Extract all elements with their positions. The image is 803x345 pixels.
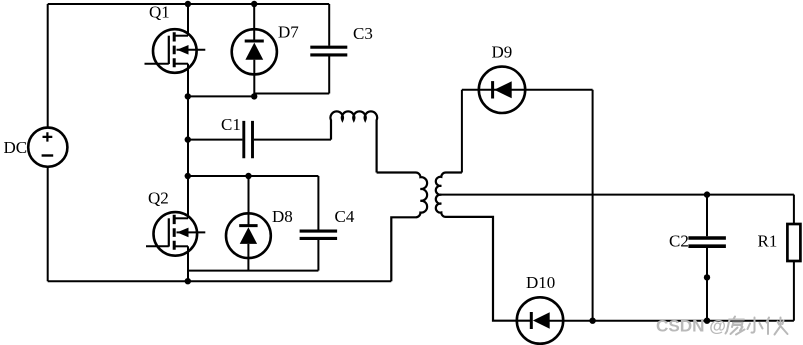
- junction Q1 source / mid rail: [185, 93, 191, 99]
- junction D7 anode / mid rail: [251, 93, 257, 99]
- svg-text:C2: C2: [669, 231, 689, 250]
- svg-text:Q1: Q1: [149, 3, 170, 22]
- svg-text:D9: D9: [492, 43, 513, 62]
- wire secondary tap rail: [441, 194, 794, 196]
- svg-text:C1: C1: [221, 115, 241, 134]
- wire mid rail D7-C3: [254, 93, 329, 95]
- svg-text:C4: C4: [335, 207, 355, 226]
- capacitor C4: [300, 176, 338, 271]
- wire mid rail Q1-D7: [188, 95, 254, 97]
- wire half-bridge midpoint vertical: [187, 96, 189, 176]
- capacitor C2: [688, 195, 726, 321]
- diode D7: [232, 4, 277, 96]
- wire left rail vertical: [47, 4, 49, 128]
- svg-text:C3: C3: [353, 24, 373, 43]
- svg-text:D10: D10: [526, 273, 555, 292]
- junction C2 bottom lead: [704, 274, 710, 280]
- diode D10: [517, 297, 563, 343]
- diode D9: [462, 67, 593, 113]
- wire midpoint to C4/D8 rail: [188, 175, 318, 177]
- svg-text:CSDN @: CSDN @: [656, 317, 726, 336]
- transformer T1 primary winding: [377, 173, 428, 282]
- junction D9 return / output bottom rail: [589, 318, 595, 324]
- inductor Lr: [330, 111, 377, 172]
- junction midpoint / C4 rail: [185, 173, 191, 179]
- capacitor C3: [310, 4, 347, 94]
- svg-text:DC: DC: [4, 138, 28, 157]
- DC source V1: [28, 128, 67, 167]
- svg-text:R1: R1: [758, 231, 778, 250]
- svg-text:D7: D7: [278, 23, 299, 42]
- wire D9 return vertical: [592, 90, 594, 321]
- junction top rail / Q1 drain: [185, 1, 191, 7]
- diode D8: [226, 176, 271, 271]
- wire top rail: [48, 3, 330, 5]
- svg-text:D8: D8: [272, 207, 293, 226]
- transistor Q1: [145, 4, 206, 96]
- wire Q2 source / D8 / C4 rail: [188, 270, 318, 272]
- junction C2 top / tap rail: [704, 191, 710, 197]
- wire bottom rail primary side: [48, 280, 392, 282]
- junction top rail / D7 cathode: [251, 1, 257, 7]
- wire output bottom rail: [550, 320, 794, 322]
- junction midpoint / C1 branch: [185, 136, 191, 142]
- resistor R1: [787, 195, 800, 321]
- svg-text:Q2: Q2: [148, 189, 169, 208]
- wire DC bottom lead: [47, 167, 49, 281]
- transistor Q2: [146, 176, 205, 281]
- junction D8 cathode / C4 rail: [245, 173, 251, 179]
- junction Q2 source / bottom rail: [185, 278, 191, 284]
- wire secondary top to D9: [461, 90, 463, 173]
- junction C2 / output bottom rail: [704, 318, 710, 324]
- capacitor C1: [188, 121, 331, 158]
- watermark CSDN: [656, 317, 788, 336]
- transformer T1 secondary winding: [436, 173, 532, 321]
